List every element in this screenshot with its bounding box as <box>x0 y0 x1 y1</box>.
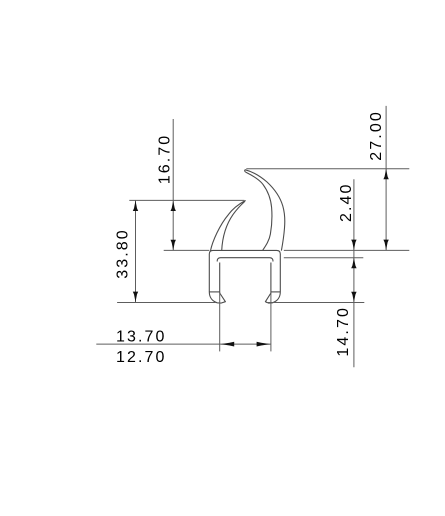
wire channel inner top with corner hooks <box>217 258 273 262</box>
wire profile channel body outline <box>209 250 280 303</box>
arrow 2.40 bottom up / 14.70 top up <box>351 258 356 268</box>
arrow 2.40 top down <box>351 240 356 250</box>
wire ext line left lip tip level <box>129 199 244 201</box>
arrow 27.00 down <box>383 240 388 250</box>
wire ext line inner top right <box>284 257 364 259</box>
svg-text:12.70: 12.70 <box>116 349 167 366</box>
arrow 16.70 down <box>171 240 176 250</box>
svg-text:27.00: 27.00 <box>368 110 385 161</box>
wire ext line channel bottom right <box>266 302 364 304</box>
svg-text:14.70: 14.70 <box>335 306 352 357</box>
arrow width right <box>257 342 271 347</box>
wire ext line right lip tip level <box>246 168 409 170</box>
arrow 33.80 down <box>133 292 138 302</box>
wire foot seam right <box>271 291 280 293</box>
wire dim line 2.40 and 14.70 <box>353 179 355 367</box>
arrow 27.00 up <box>383 169 388 179</box>
wire ext line channel top left <box>164 249 210 251</box>
svg-text:16.70: 16.70 <box>156 134 173 185</box>
svg-text:33.80: 33.80 <box>114 228 131 279</box>
arrow 33.80 up <box>133 201 138 211</box>
wire ext line channel top right <box>284 249 410 251</box>
wire dim line 16.70 <box>172 119 174 250</box>
wire ext line width left <box>219 292 221 351</box>
arrow width left <box>221 342 235 347</box>
wire left lip <box>210 201 245 252</box>
svg-text:2.40: 2.40 <box>338 182 355 222</box>
wire dim line 27.00 <box>385 106 387 250</box>
wire dim line width <box>96 343 271 345</box>
arrow 16.70 up <box>171 201 176 211</box>
wire ext line width right <box>270 292 272 351</box>
wire foot seam left <box>209 291 219 293</box>
wire ext line channel bottom left <box>117 302 216 304</box>
wire dim line 33.80 <box>135 200 137 302</box>
arrow 14.70 bottom down <box>351 292 356 302</box>
wire right lip <box>245 170 285 251</box>
svg-text:13.70: 13.70 <box>116 329 167 346</box>
